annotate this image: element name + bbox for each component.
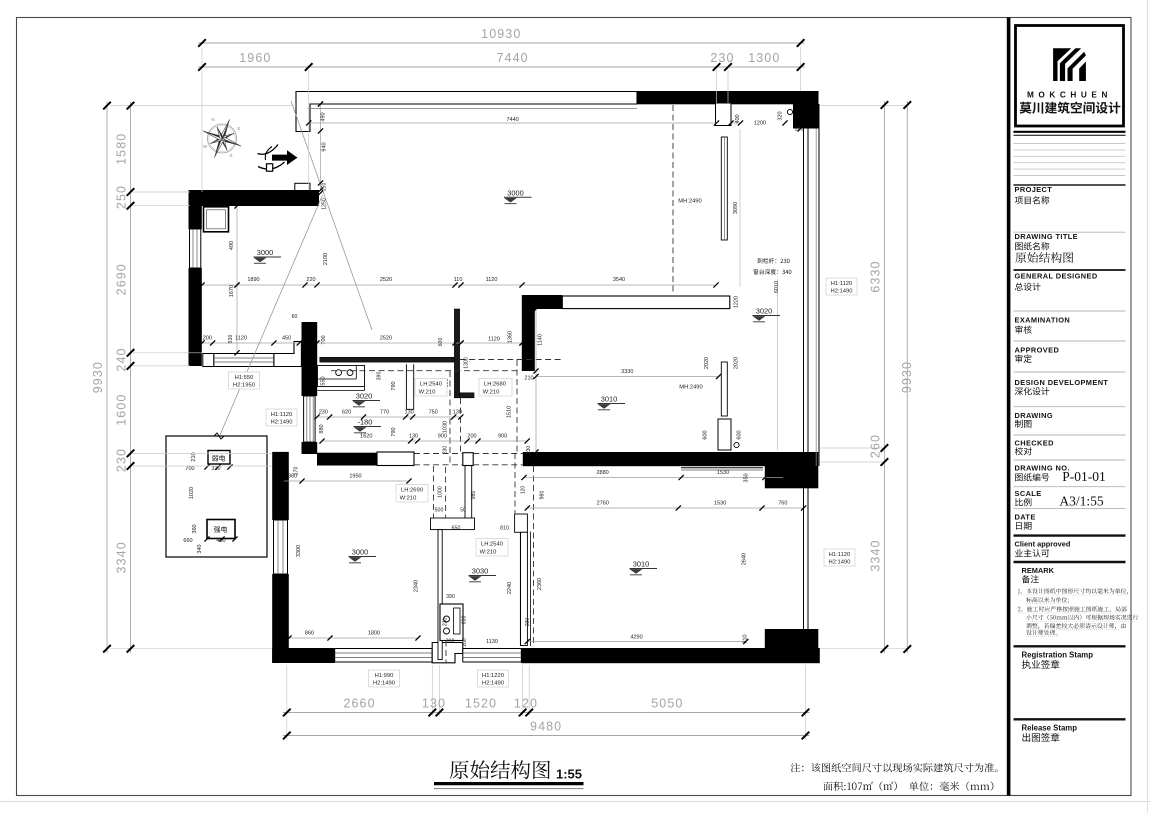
- balcony circles: [787, 109, 792, 114]
- hall partition vertical with L stub: [454, 309, 459, 398]
- svg-text:3010: 3010: [633, 560, 649, 569]
- svg-text:320: 320: [778, 111, 784, 120]
- field APPROVED: [1014, 340, 1126, 342]
- svg-text:1140: 1140: [538, 334, 544, 346]
- kitchen left wall lower (solid): [189, 268, 202, 366]
- svg-text:310: 310: [743, 634, 749, 643]
- entrance arrow symbol: [272, 150, 298, 165]
- svg-text:H2:1950: H2:1950: [233, 383, 255, 389]
- svg-text:130: 130: [405, 410, 414, 416]
- svg-text:3330: 3330: [621, 369, 633, 375]
- extension lines left: [110, 105, 296, 107]
- window label H1:1120 H2:1490 right bottom: [824, 549, 855, 566]
- living room left window: [274, 520, 288, 574]
- kitchen top wall (solid): [189, 190, 320, 206]
- svg-text:200: 200: [462, 638, 468, 647]
- svg-text:1890: 1890: [247, 277, 259, 283]
- svg-text:N: N: [211, 117, 214, 122]
- door post box: [463, 453, 473, 466]
- left dimension chain inner: [130, 102, 132, 653]
- dashed verticals bathroom: [433, 466, 435, 518]
- svg-text:DRAWING TITLE: DRAWING TITLE: [1015, 232, 1079, 241]
- kitchen internal dims: [236, 206, 238, 285]
- kitchen interior column: [204, 207, 229, 232]
- separator above PROJECT: [1014, 184, 1126, 186]
- svg-text:860: 860: [305, 631, 314, 637]
- svg-text:H1:1220: H1:1220: [482, 673, 504, 679]
- ruled gray lines: [1014, 143, 1126, 145]
- svg-text:3300: 3300: [296, 545, 302, 557]
- svg-text:1950: 1950: [349, 474, 361, 480]
- note line 2: [823, 781, 993, 791]
- svg-text:230: 230: [526, 446, 532, 455]
- svg-text:1510: 1510: [507, 406, 513, 418]
- logo outer box: [1016, 26, 1124, 127]
- dashed verticals hall: [449, 371, 451, 466]
- bottom wall left corner (solid): [272, 648, 335, 663]
- bottom dimension chain row1: [283, 712, 810, 714]
- double line under logo: [1014, 131, 1126, 133]
- title underline thin: [434, 788, 584, 790]
- svg-text:1130: 1130: [486, 639, 498, 645]
- svg-text:390: 390: [446, 639, 455, 645]
- window label H1:550 H2:1950: [229, 372, 260, 389]
- balcony lower box: [718, 419, 731, 450]
- field Client approved: [1014, 534, 1126, 536]
- kitchen room dim row y285: [202, 284, 716, 286]
- svg-text:APPROVED: APPROVED: [1015, 346, 1060, 355]
- svg-text:H2:1490: H2:1490: [373, 681, 395, 687]
- window label H1:1220 H2:1490 bottom: [478, 670, 509, 687]
- bottom wall window mid: [463, 649, 522, 663]
- svg-text:220: 220: [306, 277, 315, 283]
- svg-text:600: 600: [737, 430, 743, 439]
- right dimension chain outer 9930: [906, 101, 908, 653]
- svg-text:P-01-01: P-01-01: [1062, 469, 1106, 484]
- svg-text:H1:1120: H1:1120: [831, 281, 853, 287]
- bathroom top wall stub B / bedroom2 notch (hollow): [515, 514, 528, 532]
- svg-text:230: 230: [525, 618, 531, 627]
- bedroom2 right wall lines: [803, 488, 805, 649]
- svg-text:3030: 3030: [472, 567, 488, 576]
- field REMARK: [1014, 561, 1126, 563]
- bedroom2 right sub-block (solid): [765, 629, 819, 649]
- svg-text:1250: 1250: [322, 198, 328, 210]
- svg-text:W:210: W:210: [400, 496, 417, 502]
- svg-text:2020: 2020: [734, 357, 740, 369]
- svg-text:110: 110: [454, 277, 463, 283]
- svg-text:1620: 1620: [360, 434, 372, 440]
- svg-text:7440: 7440: [496, 51, 528, 65]
- svg-text:9480: 9480: [530, 720, 562, 734]
- living room dims: [283, 480, 409, 482]
- svg-text:360: 360: [192, 524, 198, 533]
- svg-text:530: 530: [228, 335, 234, 344]
- svg-text:1960: 1960: [239, 51, 271, 65]
- balcony extension lines: [739, 129, 741, 287]
- field EXAMINATION: [1014, 310, 1126, 312]
- svg-text:1360: 1360: [508, 331, 514, 343]
- svg-text:350: 350: [744, 473, 750, 482]
- extension lines right: [820, 105, 908, 107]
- title underline thick: [434, 782, 584, 785]
- balcony parapet wall top (hollow): [296, 92, 637, 132]
- svg-text:390: 390: [377, 372, 383, 381]
- wall band under bedroom1 window line: [681, 467, 763, 469]
- remark notes: [1018, 588, 1128, 594]
- svg-text:2640: 2640: [742, 553, 748, 565]
- svg-text:DATE: DATE: [1015, 513, 1036, 522]
- field Registration Stamp: [1014, 645, 1126, 647]
- living room left wall upper (solid): [272, 452, 289, 520]
- svg-text:E: E: [237, 126, 240, 131]
- balcony mullion mid: [721, 362, 727, 416]
- svg-text:2520: 2520: [380, 277, 392, 283]
- weak current box: [208, 451, 230, 465]
- note line 1: [791, 763, 998, 773]
- mid wall vertical leg (solid): [522, 295, 535, 371]
- mid wall hollow band: [562, 296, 730, 309]
- field DRAWING TITLE: [1014, 231, 1126, 233]
- svg-text:REMARK: REMARK: [1022, 566, 1055, 575]
- bathroom left wall vertical (hollow): [438, 530, 442, 660]
- svg-text:PROJECT: PROJECT: [1015, 185, 1053, 194]
- svg-text:130: 130: [453, 410, 462, 416]
- svg-text:750: 750: [429, 410, 438, 416]
- svg-text:9930: 9930: [91, 361, 105, 393]
- svg-text:490: 490: [229, 241, 235, 250]
- kitchen bottom wall hollow piece: [274, 342, 302, 367]
- svg-text:900: 900: [438, 434, 447, 440]
- svg-text:6330: 6330: [868, 260, 882, 292]
- svg-text:700: 700: [185, 466, 194, 472]
- svg-text:H2:1490: H2:1490: [831, 289, 853, 295]
- svg-text:7440: 7440: [506, 117, 518, 123]
- bedroom2 dim rows: [524, 477, 784, 479]
- field SCALE: [1014, 486, 1126, 488]
- bottom dimension chain row2 9480: [283, 735, 810, 737]
- svg-text:50: 50: [460, 508, 466, 514]
- door label LH2680: [479, 379, 512, 397]
- kitchen left wall upper (solid): [189, 206, 202, 229]
- svg-text:130: 130: [422, 697, 446, 711]
- window label H1:1120 H2:1490 left: [266, 409, 297, 426]
- svg-text:600: 600: [438, 338, 444, 347]
- svg-text:200: 200: [203, 336, 212, 342]
- field CHECKED: [1014, 434, 1126, 436]
- svg-text:S: S: [229, 153, 232, 158]
- hall partition wall horizontal: [320, 357, 455, 362]
- svg-text:230: 230: [319, 410, 328, 416]
- bottom wall window left: [335, 649, 433, 663]
- left dimension chain outer 9930: [106, 102, 108, 653]
- vertical wall lower stub (solid): [302, 442, 318, 454]
- door label LH2690: [396, 485, 428, 503]
- dashed line big room vertical: [672, 105, 674, 295]
- field GENERAL DESIGNED: [1014, 269, 1126, 271]
- svg-text:3010: 3010: [601, 395, 617, 404]
- living room top wall left (solid): [317, 453, 377, 466]
- field DESIGN DEVELOPMENT: [1014, 371, 1126, 373]
- svg-text:5050: 5050: [651, 697, 683, 711]
- svg-text:H1:550: H1:550: [235, 375, 254, 381]
- hall upper dim row: [317, 342, 522, 344]
- svg-text:550: 550: [321, 376, 327, 385]
- svg-text:6010: 6010: [774, 281, 780, 293]
- svg-text:-180: -180: [358, 418, 373, 427]
- svg-text:EXAMINATION: EXAMINATION: [1015, 316, 1071, 325]
- svg-text:3000: 3000: [352, 548, 368, 557]
- dashed door opening in living top wall: [414, 453, 463, 455]
- svg-text:770: 770: [380, 410, 389, 416]
- svg-text:3000: 3000: [507, 189, 523, 198]
- svg-text:Release Stamp: Release Stamp: [1022, 724, 1078, 733]
- svg-text:2760: 2760: [597, 501, 609, 507]
- strong current box: [207, 520, 235, 539]
- svg-text:1:55: 1:55: [556, 767, 582, 782]
- parapet window dim 7440: [309, 122, 717, 124]
- right facade glazing lines: [803, 104, 805, 648]
- svg-text:H1:1120: H1:1120: [271, 412, 293, 418]
- svg-text:LH:2540: LH:2540: [481, 542, 503, 548]
- vertical shear wall right of kitchen (solid): [302, 322, 318, 396]
- extension lines top: [201, 47, 203, 192]
- logo mark MOKCHUEN: [1053, 48, 1071, 81]
- svg-text:A3/1:55: A3/1:55: [1059, 494, 1104, 509]
- door label LH2540 bathroom: [476, 539, 508, 557]
- svg-text:H2:1490: H2:1490: [482, 681, 504, 687]
- svg-text:400: 400: [735, 114, 741, 123]
- leader diagonal line 1: [291, 101, 372, 330]
- window label H1:990 H2:1490 bottom: [369, 670, 400, 687]
- svg-text:120: 120: [514, 697, 538, 711]
- svg-text:1530: 1530: [717, 470, 729, 476]
- svg-text:MOKCHUEN: MOKCHUEN: [1027, 91, 1112, 100]
- living room left wall lower (solid): [272, 574, 289, 663]
- svg-text:2520: 2520: [380, 336, 392, 342]
- svg-text:790: 790: [391, 427, 397, 436]
- svg-text:2690: 2690: [115, 263, 129, 295]
- svg-text:210: 210: [524, 376, 533, 382]
- svg-text:SCALE: SCALE: [1015, 489, 1042, 498]
- svg-text:230: 230: [443, 446, 449, 455]
- svg-text:790: 790: [391, 381, 397, 390]
- svg-text:1800: 1800: [368, 631, 380, 637]
- svg-text:H1:990: H1:990: [375, 673, 394, 679]
- svg-text:1120: 1120: [235, 336, 247, 342]
- svg-text:3540: 3540: [613, 277, 625, 283]
- svg-text:250: 250: [115, 185, 129, 209]
- svg-text:940: 940: [322, 142, 328, 151]
- mid wall between big room and bedroom1: solid corner: [523, 295, 563, 309]
- svg-text:1200: 1200: [754, 121, 766, 127]
- door label LH2540 hall: [415, 379, 447, 397]
- svg-text:980: 980: [540, 491, 546, 500]
- field DRAWING: [1014, 406, 1126, 408]
- svg-text:H1:1120: H1:1120: [829, 552, 851, 558]
- dashed line hall horizontal 2: [331, 370, 519, 372]
- bathroom right wall vertical (hollow): [520, 532, 527, 645]
- hall dim row y417: [317, 416, 461, 418]
- svg-text:LH:2690: LH:2690: [401, 488, 423, 494]
- svg-text:230: 230: [710, 51, 734, 65]
- svg-text:GENERAL DESIGNED: GENERAL DESIGNED: [1015, 272, 1098, 281]
- kitchen bottom wall corner box: [203, 354, 214, 367]
- logo text chinese: [1020, 102, 1121, 114]
- svg-text:CHECKED: CHECKED: [1015, 439, 1055, 448]
- bottom door threshold piece: [432, 643, 463, 663]
- svg-text:1530: 1530: [714, 501, 726, 507]
- door threshold box hallway: [377, 452, 414, 466]
- svg-text:120: 120: [521, 486, 527, 495]
- svg-text:760: 760: [778, 501, 787, 507]
- north compass rose: [208, 124, 237, 153]
- svg-text:4290: 4290: [630, 635, 642, 641]
- extension lines bottom: [286, 665, 288, 740]
- svg-text:Client approved: Client approved: [1015, 540, 1071, 549]
- svg-text:1300: 1300: [464, 357, 470, 369]
- balcony text note: [757, 258, 789, 263]
- electrical legend box: [166, 436, 267, 557]
- svg-text:1030: 1030: [443, 421, 449, 433]
- svg-text:260: 260: [868, 434, 882, 458]
- svg-text:10930: 10930: [481, 27, 521, 41]
- svg-text:240: 240: [115, 347, 129, 371]
- svg-text:LH:2680: LH:2680: [484, 382, 506, 388]
- svg-text:400: 400: [216, 538, 225, 544]
- svg-text:60: 60: [292, 314, 298, 320]
- svg-text:H2:1490: H2:1490: [829, 560, 851, 566]
- svg-text:1670: 1670: [229, 285, 235, 297]
- svg-text:1000: 1000: [438, 486, 444, 498]
- field DRAWING NO: [1014, 459, 1126, 461]
- svg-text:W:210: W:210: [483, 390, 500, 396]
- window label H1:1120 H2:1490 right top: [826, 278, 857, 295]
- svg-text:3340: 3340: [868, 539, 882, 571]
- bottom wall right (solid): [521, 648, 820, 663]
- right dimension chain inner: [883, 101, 885, 653]
- svg-text:230: 230: [443, 618, 449, 627]
- svg-text:2240: 2240: [507, 582, 513, 594]
- svg-text:LH:2540: LH:2540: [420, 382, 442, 388]
- svg-text:2360: 2360: [537, 578, 543, 590]
- svg-text:DRAWING: DRAWING: [1015, 411, 1054, 420]
- svg-text:DESIGN DEVELOPMENT: DESIGN DEVELOPMENT: [1015, 378, 1109, 387]
- svg-text:360: 360: [288, 474, 297, 480]
- bathroom top wall stub A (hollow): [431, 518, 475, 530]
- svg-text:810: 810: [500, 526, 509, 532]
- top dimension chain row1 10930: [198, 42, 805, 44]
- shaft window in vertical wall: [304, 396, 316, 442]
- kitchen left wall window: [190, 229, 201, 268]
- svg-text:600: 600: [703, 430, 709, 439]
- svg-text:1300: 1300: [748, 51, 780, 65]
- svg-text:230: 230: [115, 448, 129, 472]
- dining top wall (solid, big band): [523, 452, 819, 466]
- balcony right small dims: [731, 122, 741, 124]
- top dimension chain row2: [198, 66, 805, 68]
- svg-text:880: 880: [319, 424, 325, 433]
- svg-text:1220: 1220: [734, 296, 740, 308]
- thin wall below door post: [464, 466, 466, 518]
- svg-text:900: 900: [498, 434, 507, 440]
- vertical dims kitchen left: [236, 285, 238, 353]
- svg-text:3000: 3000: [257, 248, 273, 257]
- svg-text:630: 630: [462, 616, 468, 625]
- svg-text:390: 390: [446, 594, 455, 600]
- small wall stub above kitchen: [295, 183, 310, 193]
- svg-text:1580: 1580: [115, 133, 129, 165]
- svg-text:200: 200: [467, 434, 476, 440]
- short wall stub U-shape in hall: [406, 364, 413, 409]
- dashed line hall horizontal 1: [460, 359, 562, 361]
- svg-text:1120: 1120: [486, 277, 498, 283]
- svg-text:150: 150: [322, 183, 328, 192]
- svg-text:1020: 1020: [189, 487, 195, 499]
- svg-text:3020: 3020: [356, 392, 372, 401]
- svg-text:2660: 2660: [343, 697, 375, 711]
- svg-text:Registration Stamp: Registration Stamp: [1022, 651, 1094, 660]
- svg-text:H2:1490: H2:1490: [271, 420, 293, 426]
- svg-text:450: 450: [282, 336, 291, 342]
- svg-text:2020: 2020: [704, 357, 710, 369]
- svg-text:W:210: W:210: [480, 550, 497, 556]
- svg-text:1600: 1600: [115, 394, 129, 426]
- bedroom1 dim 3330: [536, 376, 719, 378]
- svg-text:1120: 1120: [488, 337, 500, 343]
- svg-text:620: 620: [342, 410, 351, 416]
- dashed vertical bedroom2 left: [533, 466, 535, 645]
- svg-text:9930: 9930: [900, 361, 914, 393]
- dims along parapet left return: [320, 104, 322, 190]
- svg-text:130: 130: [409, 434, 418, 440]
- svg-text:2340: 2340: [414, 580, 420, 592]
- svg-text:650: 650: [452, 526, 461, 532]
- svg-text:660: 660: [183, 538, 192, 544]
- top-right corner block (solid): [793, 104, 819, 129]
- field DATE: [1014, 507, 1126, 509]
- kitchen counter with sink: [318, 366, 365, 387]
- water heater in bathroom: [440, 604, 463, 641]
- svg-text:W:210: W:210: [419, 390, 436, 396]
- svg-text:980: 980: [471, 491, 477, 500]
- drawing title chinese: [1015, 252, 1073, 263]
- title block left heavy bar: [1007, 18, 1011, 796]
- svg-text:MH:2490: MH:2490: [678, 199, 702, 205]
- svg-text:2880: 2880: [596, 470, 608, 476]
- svg-text:490: 490: [321, 112, 327, 121]
- svg-text:3020: 3020: [756, 307, 772, 316]
- kitchen window dim row: [202, 342, 299, 344]
- svg-text:3340: 3340: [115, 541, 129, 573]
- kitchen bottom window: [214, 354, 274, 367]
- balcony mullion upper: [716, 103, 732, 126]
- structural wall top right (solid): [637, 91, 819, 104]
- svg-text:340: 340: [197, 544, 203, 553]
- svg-text:210: 210: [191, 452, 197, 461]
- svg-text:3090: 3090: [733, 202, 739, 214]
- field Release Stamp: [1014, 718, 1126, 720]
- sheet title chinese: [450, 760, 550, 779]
- svg-text:2100: 2100: [323, 253, 329, 265]
- bedroom2 left thin wall: [520, 532, 522, 645]
- leader diagonal line 2: [220, 195, 323, 435]
- hall dim row y441: [322, 440, 527, 442]
- svg-text:500: 500: [435, 508, 444, 514]
- svg-text:MH:2490: MH:2490: [679, 385, 703, 391]
- svg-text:1520: 1520: [465, 697, 497, 711]
